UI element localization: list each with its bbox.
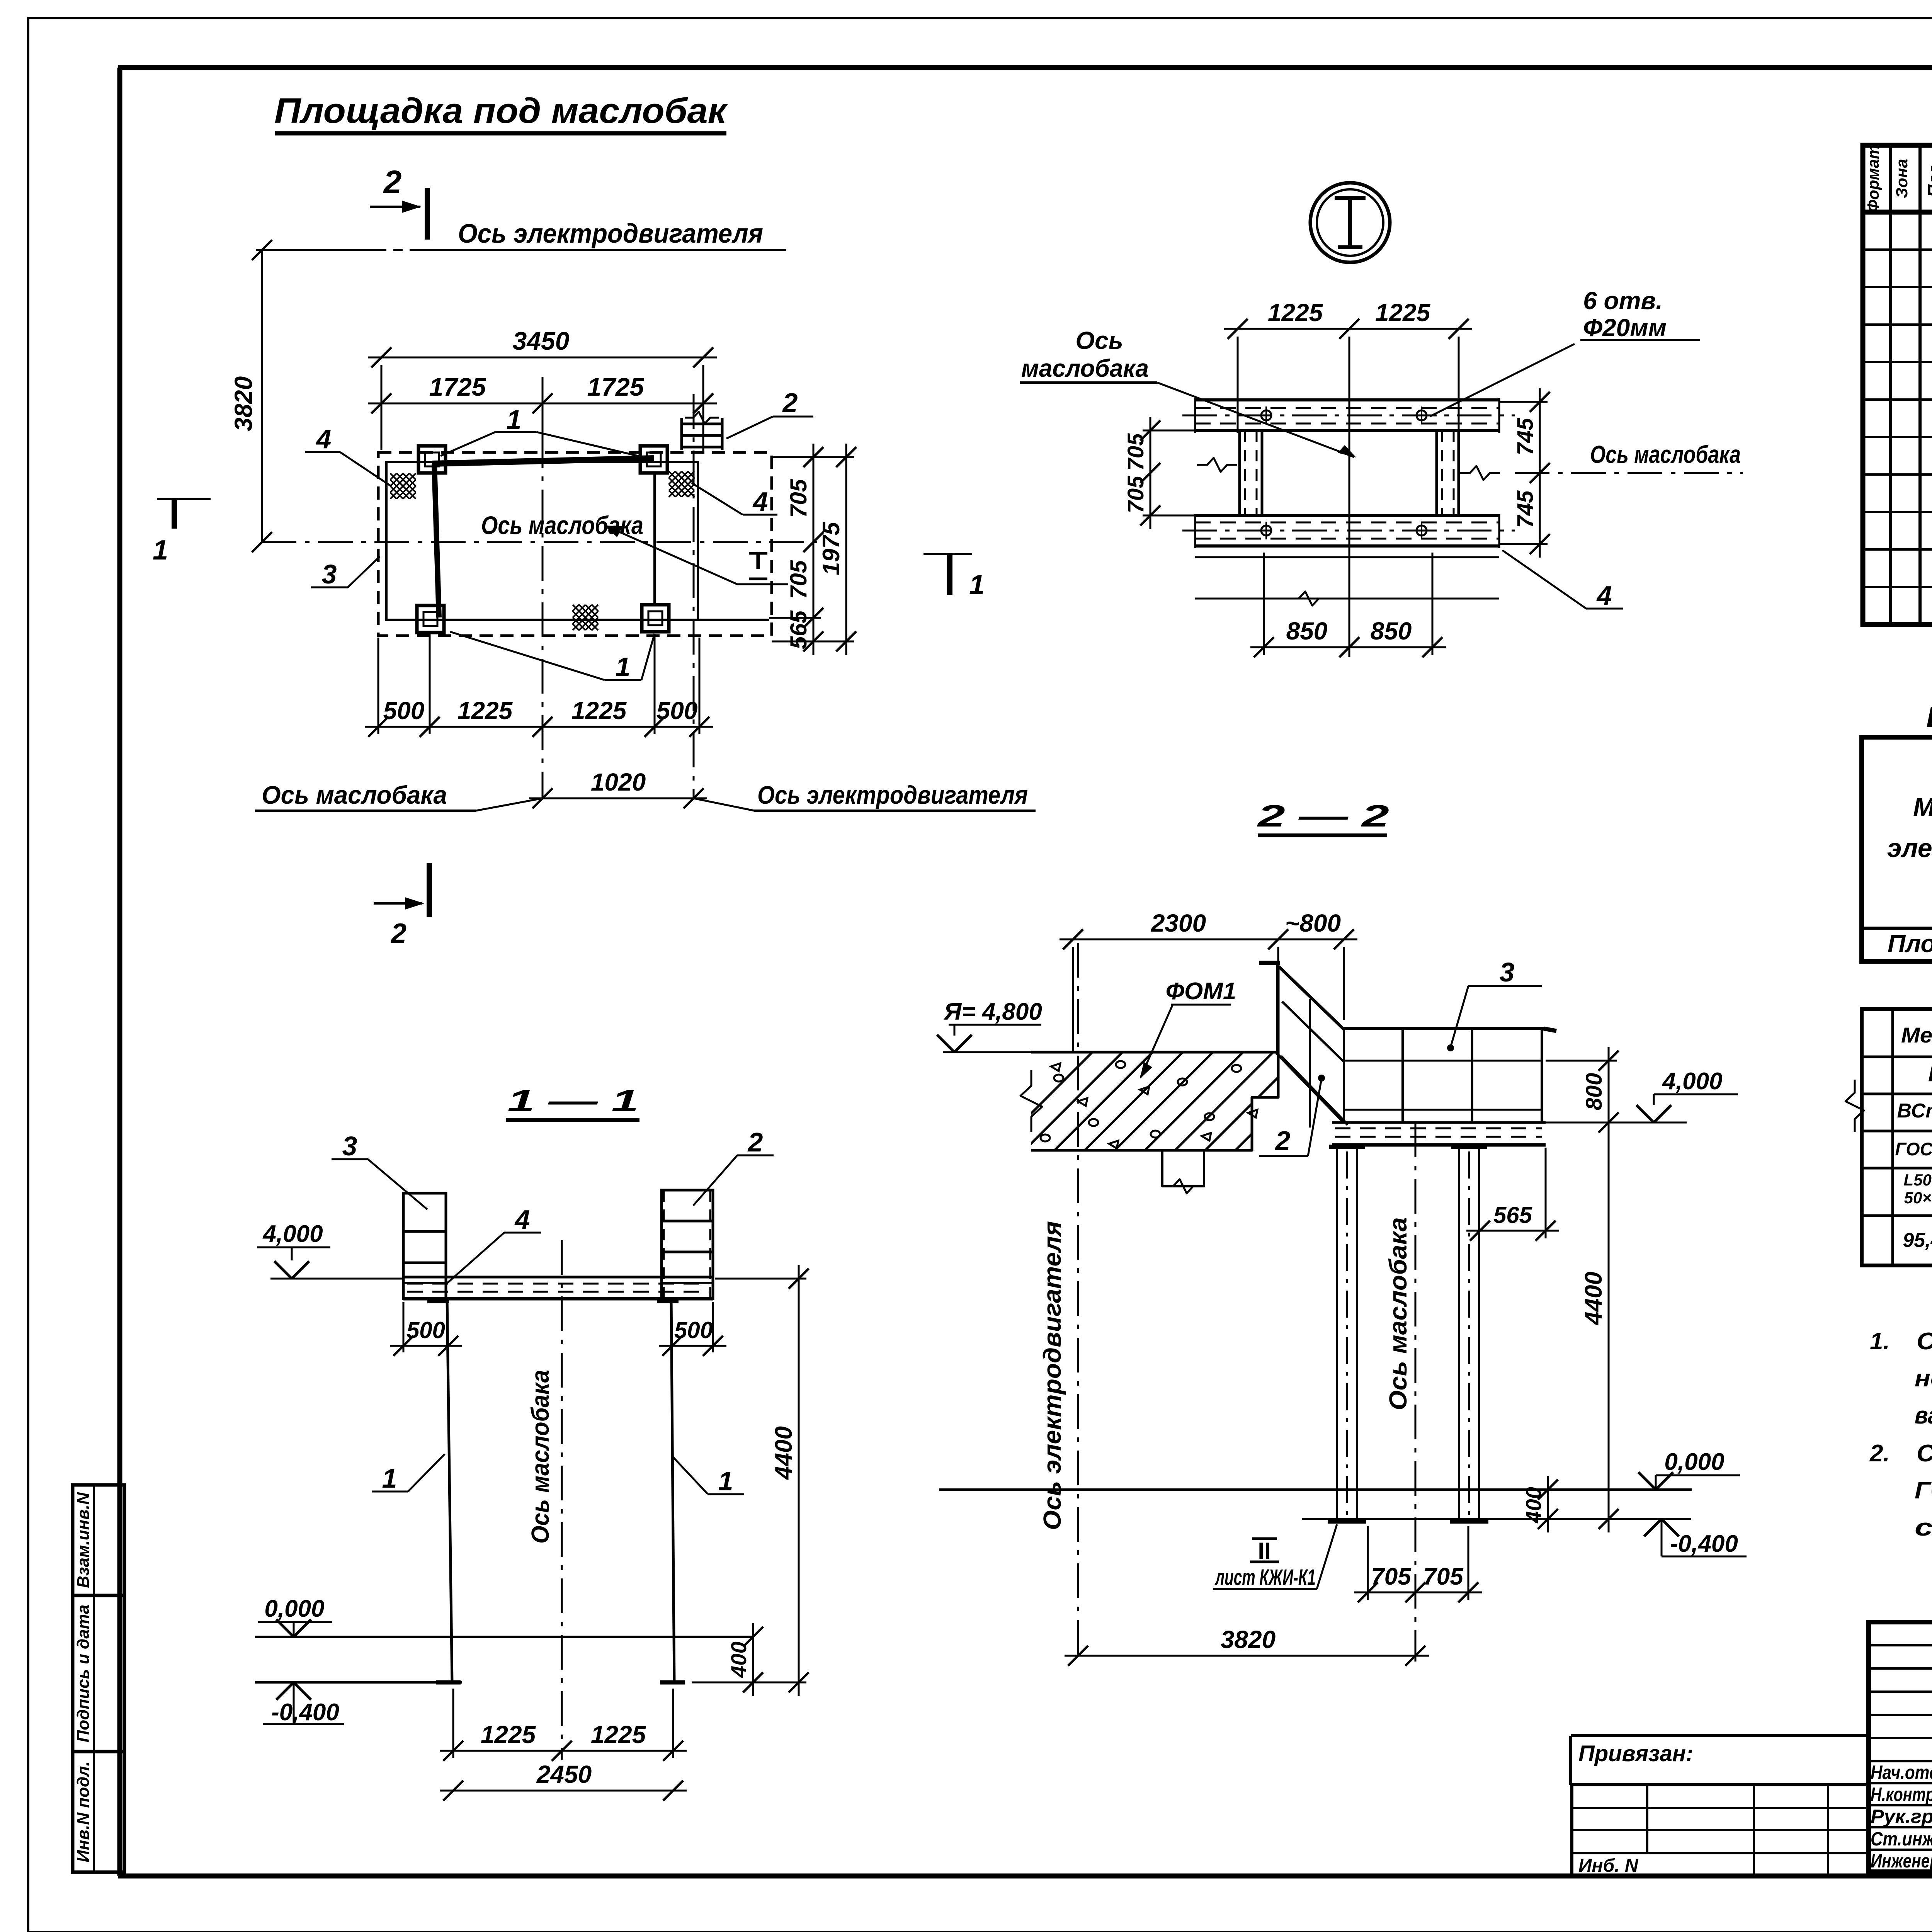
svg-text:~800: ~800 [1285, 909, 1341, 937]
svg-text:элемента: элемента [1887, 833, 1932, 863]
svg-text:500: 500 [656, 697, 698, 724]
dim 2450 s11 [440, 1790, 687, 1792]
svg-text:4: 4 [514, 1204, 530, 1235]
svg-text:745: 745 [1513, 418, 1538, 456]
svg-text:1.: 1. [1870, 1328, 1890, 1355]
svg-text:1225: 1225 [457, 697, 513, 724]
svg-text:Ось: Ось [1075, 327, 1123, 354]
svg-text:1225: 1225 [591, 1721, 646, 1748]
detail center line vertical [1349, 337, 1350, 657]
svg-text:Площадка: Площадка [1888, 930, 1932, 957]
svg-text:Соединение деталей производи: Соединение деталей производить ручной св… [1917, 1440, 1932, 1467]
left beam vertical thick [434, 464, 439, 617]
svg-text:-0,400: -0,400 [1670, 1531, 1738, 1557]
level 4.000 line s11 [270, 1278, 403, 1280]
svg-text:Поз.: Поз. [1924, 160, 1932, 197]
detail top beam [1195, 398, 1499, 401]
Привязан strip [1571, 1734, 1869, 1737]
svg-text:Зона: Зона [1893, 159, 1911, 198]
svg-text:2: 2 [782, 388, 798, 418]
grout hatch bottom [573, 605, 579, 611]
detail dim 745 745 right [1539, 388, 1541, 558]
svg-text:3: 3 [322, 559, 337, 589]
platform railing s22 [1344, 1027, 1544, 1030]
svg-text:4: 4 [752, 486, 768, 517]
dim 3450 [368, 357, 717, 359]
small steel table grid [1862, 1009, 1932, 1265]
grout hatch top-right [669, 471, 675, 478]
dim 565 s22 [1466, 1230, 1559, 1232]
platform deck dashed outline [378, 452, 772, 636]
svg-text:0,000: 0,000 [264, 1595, 324, 1622]
svg-text:2450: 2450 [536, 1760, 592, 1788]
dim 4400 s11 [798, 1265, 800, 1696]
detail circle node I [1310, 183, 1390, 262]
svg-text:Ось маслобака: Ось маслобака [481, 511, 643, 539]
detail bottom flange lip [1195, 556, 1499, 558]
svg-text:Сварку колонн допускается п: Сварку колонн допускается производить вн… [1917, 1328, 1932, 1355]
dim 400 s11 [752, 1623, 754, 1696]
svg-text:I: I [755, 546, 762, 574]
svg-text:Формат: Формат [1864, 145, 1882, 212]
detail bolt holes top [1261, 410, 1271, 420]
svg-text:1: 1 [969, 570, 985, 600]
svg-text:565: 565 [1493, 1202, 1533, 1228]
dim 500 left s11 [390, 1345, 462, 1347]
ladder stringer [1276, 1053, 1343, 1122]
svg-text:2: 2 [390, 918, 406, 949]
svg-text:Ось электродвигателя: Ось электродвигателя [458, 218, 763, 248]
dim 500 right s11 [659, 1345, 726, 1347]
svg-text:3: 3 [342, 1131, 357, 1161]
stair handrail diagonal [1279, 967, 1344, 1029]
level 4.800 thin line left of slab [943, 1051, 1031, 1053]
axis Ось электродвигателя horizontal [256, 249, 386, 251]
svg-text:1: 1 [718, 1466, 733, 1496]
platform steel frame outline [386, 462, 698, 620]
svg-text:Ст.инж.: Ст.инж. [1871, 1828, 1932, 1850]
svg-text:вается одновременносмонтажом: вается одновременносмонтажом маслобака. [1915, 1402, 1932, 1429]
level -0.400 line s22 [1302, 1518, 1691, 1520]
axis Ось маслобака detail right [1515, 472, 1743, 474]
svg-text:2: 2 [747, 1127, 763, 1157]
svg-text:Марка: Марка [1913, 793, 1932, 822]
grout hatch top-left [390, 473, 397, 480]
svg-text:2: 2 [1275, 1126, 1291, 1156]
svg-text:1: 1 [153, 535, 168, 566]
level 0.000 line s22 [939, 1488, 1692, 1491]
svg-text:705: 705 [786, 560, 811, 599]
svg-text:2: 2 [383, 164, 402, 200]
section mark 2 bottom [427, 863, 432, 917]
left column s22 [1336, 1148, 1338, 1519]
railing post on slab [1276, 965, 1280, 1052]
axis электродвигателя vertical s22 [1077, 943, 1079, 1662]
column K1 bottom-left [417, 605, 444, 633]
svg-text:Ось электродвигателя: Ось электродвигателя [757, 781, 1028, 809]
level 4.000 line s22 [1546, 1122, 1687, 1124]
svg-text:Ось маслобака: Ось маслобака [1384, 1217, 1412, 1410]
svg-text:Инженер: Инженер [1871, 1850, 1932, 1872]
svg-text:сварки по ГОСТ 3242-79.: сварки по ГОСТ 3242-79. [1915, 1514, 1932, 1541]
svg-text:Инб. N: Инб. N [1578, 1855, 1639, 1876]
svg-text:745: 745 [1513, 490, 1538, 528]
small table break mark [1845, 1080, 1864, 1132]
svg-text:500: 500 [674, 1317, 713, 1343]
svg-text:Ось маслобака: Ось маслобака [1590, 440, 1741, 468]
right columns line [653, 473, 656, 605]
svg-text:1975: 1975 [818, 522, 845, 575]
svg-text:705: 705 [1371, 1563, 1412, 1590]
svg-text:Н.контр.: Н.контр. [1871, 1784, 1932, 1805]
svg-text:3820: 3820 [1221, 1626, 1276, 1653]
svg-text:0,000: 0,000 [1664, 1449, 1724, 1475]
svg-text:Я= 4,800: Я= 4,800 [943, 998, 1042, 1025]
level -0.400 line s11 [255, 1681, 462, 1684]
svg-text:95,4: 95,4 [1903, 1229, 1932, 1252]
svg-text:Привязан:: Привязан: [1578, 1741, 1693, 1766]
section mark 1 left [157, 498, 211, 500]
axis маслобака vertical s22 [1415, 1122, 1417, 1662]
axis маслобака vertical center [542, 377, 544, 798]
svg-text:4400: 4400 [1580, 1272, 1607, 1326]
dim 400 s22 [1547, 1476, 1549, 1532]
section mark 1 right [923, 553, 972, 555]
svg-text:1225: 1225 [481, 1721, 536, 1748]
column caps s22 [1329, 1145, 1365, 1149]
detail dim 705 705 left [1150, 417, 1151, 529]
plan ladder top right [680, 418, 683, 450]
steel table grid [1862, 737, 1932, 961]
svg-text:4400: 4400 [770, 1426, 797, 1480]
svg-text:Нач.отд: Нач.отд [1871, 1762, 1932, 1783]
svg-text:4: 4 [316, 424, 332, 454]
dim 3820 vertical [261, 250, 263, 542]
left margin stamp boxes [73, 1485, 124, 1872]
sheet inner frame [118, 65, 1932, 70]
svg-text:1: 1 [507, 405, 522, 435]
column K1 top-left [418, 446, 446, 473]
svg-text:маслобака: маслобака [1021, 354, 1149, 382]
svg-text:ной площадки, стальная конст: ной площадки, стальная конструкция площа… [1915, 1365, 1932, 1392]
detail dim 1225 1225 [1224, 328, 1472, 330]
svg-text:Ось маслобака: Ось маслобака [526, 1370, 554, 1544]
svg-text:705: 705 [786, 478, 811, 518]
axis маслобака s11 [561, 1240, 563, 1760]
concrete texture triangles [1078, 1098, 1087, 1106]
svg-text:Ф20мм: Ф20мм [1583, 314, 1667, 342]
svg-text:500: 500 [406, 1317, 445, 1343]
dim 800 s22 [1608, 1047, 1610, 1136]
svg-text:4,000: 4,000 [262, 1221, 323, 1247]
dim 1020 [529, 798, 707, 799]
dim 2300 and ~800 [1060, 939, 1357, 940]
dim 4400 s22 [1608, 1109, 1610, 1532]
concrete texture dots [1054, 1075, 1063, 1082]
column left s11 [447, 1299, 452, 1682]
level 0.000 line s11 [255, 1636, 753, 1638]
svg-text:2300: 2300 [1151, 909, 1206, 937]
dim 3820 s22 [1065, 1655, 1429, 1657]
svg-text:705: 705 [1123, 476, 1148, 514]
svg-text:1225: 1225 [571, 697, 627, 724]
svg-text:ГОСТ 5264-80, электроды Э-42А: ГОСТ 5264-80, электроды Э-42А по ГОСТ 94… [1915, 1477, 1932, 1504]
svg-text:4,000: 4,000 [1662, 1068, 1722, 1095]
svg-text:2 — 2: 2 — 2 [1257, 799, 1389, 833]
column K1 bottom-right [642, 605, 669, 632]
concrete slab outline [1031, 1052, 1278, 1150]
section mark 2 top [425, 188, 430, 240]
dim chain right 705 705 565 [813, 444, 815, 655]
platform floor s22 [1332, 1121, 1546, 1124]
svg-text:Площадка под маслобак: Площадка под маслобак [274, 91, 728, 131]
concrete pedestal [1162, 1150, 1204, 1186]
svg-text:705: 705 [1123, 433, 1148, 471]
dim 1975 [845, 444, 847, 655]
svg-text:Ведомость расхода стали на пло: Ведомость расхода стали на площадку, кг [1926, 701, 1932, 734]
title block frame [1869, 1622, 1932, 1872]
svg-text:50×5: 50×5 [1904, 1189, 1932, 1207]
svg-text:ГОСТ8509-86: ГОСТ8509-86 [1895, 1139, 1932, 1159]
svg-text:1725: 1725 [587, 372, 645, 401]
svg-text:6 отв.: 6 отв. [1583, 287, 1663, 315]
stair middle post [1309, 999, 1311, 1128]
svg-text:1: 1 [382, 1463, 397, 1493]
svg-text:2.: 2. [1869, 1440, 1890, 1467]
svg-text:ВСт3пс6-1: ВСт3пс6-1 [1897, 1100, 1932, 1122]
column K1 top-right [640, 446, 667, 473]
left railing post stack [403, 1193, 446, 1299]
svg-text:Взам.инв.N: Взам.инв.N [74, 1492, 93, 1588]
svg-text:II: II [1258, 1538, 1270, 1564]
dim 1225 1225 s11 [440, 1750, 687, 1752]
svg-text:800: 800 [1582, 1073, 1607, 1111]
svg-text:Ось маслобака: Ось маслобака [262, 781, 447, 809]
svg-text:Рук.гр.: Рук.гр. [1871, 1806, 1932, 1827]
svg-text:1225: 1225 [1268, 299, 1323, 327]
bottom chord line [386, 619, 769, 621]
platform beam s11 [403, 1276, 713, 1279]
dim 1725 1725 [368, 403, 717, 405]
svg-text:850: 850 [1371, 617, 1412, 645]
detail left column [1238, 430, 1241, 515]
svg-text:3820: 3820 [230, 376, 257, 431]
svg-text:Подпись и дата: Подпись и дата [74, 1605, 93, 1743]
svg-text:-0,400: -0,400 [271, 1699, 339, 1726]
svg-text:Прокат марки: Прокат марки [1928, 1061, 1932, 1086]
detail break marks [1197, 458, 1237, 472]
svg-text:850: 850 [1286, 617, 1328, 645]
svg-text:705: 705 [1423, 1563, 1464, 1590]
detail right column [1435, 430, 1438, 515]
dim 705 705 s22 [1354, 1592, 1482, 1594]
detail dim 850 850 [1250, 646, 1446, 648]
svg-text:1225: 1225 [1375, 299, 1431, 327]
axis Ось маслобака horizontal in plan [262, 541, 819, 543]
detail bolt holes bottom [1261, 526, 1271, 536]
svg-text:500: 500 [383, 697, 425, 724]
svg-text:1 — 1: 1 — 1 [507, 1083, 639, 1118]
column right s11 [671, 1299, 674, 1682]
detail bottom beam [1195, 514, 1499, 517]
svg-text:Инв.N подл.: Инв.N подл. [74, 1761, 93, 1862]
spec table grid [1863, 145, 1932, 624]
axis электродвигателя vertical [693, 394, 695, 798]
svg-text:1: 1 [616, 652, 631, 682]
svg-text:Ось электродвигателя: Ось электродвигателя [1038, 1221, 1066, 1530]
svg-text:ФОМ1: ФОМ1 [1166, 978, 1236, 1005]
svg-text:1725: 1725 [429, 372, 486, 401]
main beam top thick [432, 458, 654, 464]
right railing post stack [662, 1190, 713, 1299]
svg-text:565: 565 [786, 610, 811, 649]
svg-text:1020: 1020 [591, 768, 646, 796]
svg-text:4: 4 [1596, 580, 1612, 611]
svg-text:L50×: L50× [1904, 1171, 1932, 1189]
right column s22 [1458, 1148, 1460, 1519]
lower-left aux table [1572, 1785, 1869, 1876]
detail far flange line [1195, 598, 1499, 600]
svg-text:лист КЖИ-К1: лист КЖИ-К1 [1214, 1565, 1316, 1590]
svg-text:3450: 3450 [513, 327, 570, 355]
dim chain bottom 500 1225 1225 500 [365, 726, 713, 728]
svg-text:Металлические изделия: Металлические изделия [1901, 1023, 1932, 1047]
svg-text:3: 3 [1500, 957, 1515, 987]
svg-text:400: 400 [726, 1641, 751, 1678]
svg-text:400: 400 [1521, 1487, 1546, 1523]
